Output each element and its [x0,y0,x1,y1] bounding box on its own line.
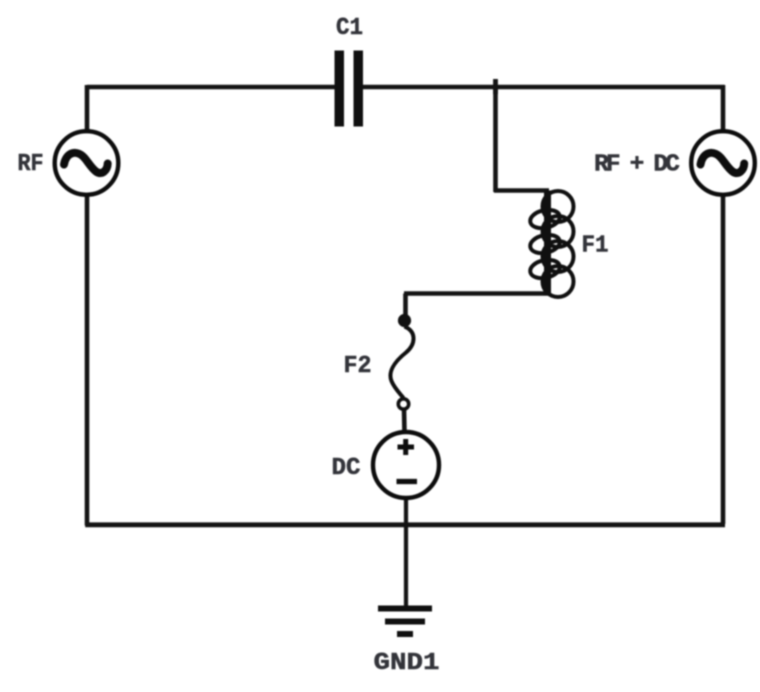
DC plus sign [398,439,415,455]
ground GND1 bar 1 [378,606,432,612]
svg-text:RF: RF [18,151,44,178]
fuse F2 bottom contact circle [398,399,408,409]
source DC circle [373,432,439,498]
wire right vertical upper [721,85,726,131]
svg-text:F2: F2 [344,353,372,380]
source RF [55,131,119,195]
svg-text:F1: F1 [582,233,609,260]
svg-text:GND1: GND1 [374,650,440,677]
wire horizontal to coil top [494,188,549,193]
capacitor C1 [335,51,364,127]
svg-text:C1: C1 [336,15,363,42]
inductor F1 core bar [544,191,551,296]
inductor F1 coil turns [528,191,573,297]
wire junction to coil vertical [493,86,498,192]
wire DC to ground through bus [404,497,408,608]
DC minus sign [397,479,418,484]
wire bottom bus [85,522,725,527]
ground GND1 bar 3 [397,631,413,637]
wire left vertical upper [85,85,90,131]
fuse F2 top contact dot [398,314,411,327]
wire top-left segment [87,85,336,90]
wire F2 top lead [403,294,408,316]
ground GND1 bar 2 [385,619,425,625]
node junction tick top bus [493,79,498,94]
wire top-right segment [362,85,725,90]
svg-text:RF + DC: RF + DC [594,152,680,179]
svg-text:DC: DC [332,455,361,482]
wire coil bottom horizontal [404,291,550,296]
wire F2 bottom lead [402,409,407,433]
wire right vertical lower [721,195,726,524]
wire left vertical lower [85,195,90,526]
fuse F2 blade curve [390,327,413,399]
source RF + DC [691,131,755,195]
